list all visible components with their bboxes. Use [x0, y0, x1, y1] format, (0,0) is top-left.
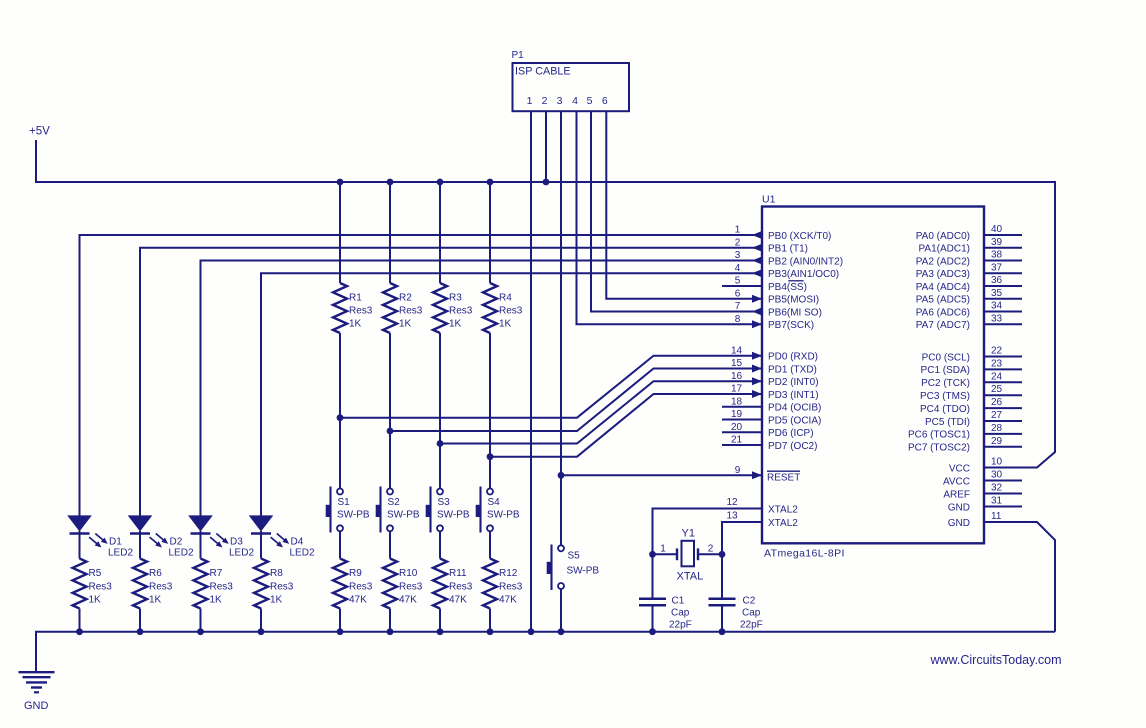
svg-text:22pF: 22pF — [669, 619, 692, 630]
svg-text:VCC: VCC — [949, 463, 970, 474]
svg-text:2: 2 — [735, 237, 741, 248]
svg-text:32: 32 — [991, 483, 1003, 494]
wire LED D3 to R7 — [200, 534, 202, 559]
IC U1 body — [762, 207, 984, 544]
svg-text:19: 19 — [731, 409, 743, 420]
switch S3 SW-PB — [426, 487, 470, 533]
svg-text:PC6 (TOSC1): PC6 (TOSC1) — [908, 430, 970, 441]
svg-text:1: 1 — [735, 225, 741, 236]
svg-text:R10: R10 — [399, 568, 418, 579]
svg-text:22pF: 22pF — [740, 619, 763, 630]
svg-text:S4: S4 — [488, 497, 501, 508]
wire GND rail — [36, 632, 1055, 672]
svg-text:22: 22 — [991, 346, 1003, 357]
U1 pin 11 GND label — [948, 511, 1002, 529]
svg-text:Res3: Res3 — [449, 306, 473, 317]
junction R11 / GND rail — [437, 628, 444, 635]
svg-text:C2: C2 — [743, 595, 756, 606]
U1 pin 10 VCC label — [949, 457, 1003, 475]
resistor R3 — [433, 283, 473, 333]
svg-text:5: 5 — [735, 276, 741, 287]
junction R9 / GND rail — [337, 628, 344, 635]
U1 pin 9 label — [735, 465, 801, 484]
U1 pin 7 label — [735, 301, 822, 318]
svg-text:2: 2 — [542, 95, 548, 107]
junction R8 / GND rail — [258, 628, 265, 635]
svg-text:Res3: Res3 — [499, 306, 523, 317]
LED D4 — [249, 515, 315, 558]
svg-text:24: 24 — [991, 371, 1003, 382]
ground symbol — [19, 672, 55, 712]
U1 pin 3 output arrow — [752, 257, 762, 265]
svg-text:R7: R7 — [210, 568, 223, 579]
U1 pin 17 input arrow — [752, 390, 762, 398]
svg-text:R12: R12 — [499, 568, 518, 579]
svg-text:XTAL2: XTAL2 — [768, 504, 798, 515]
svg-text:PC4 (TDO): PC4 (TDO) — [920, 404, 970, 415]
wire ISP pin 5 to U1 pin 7 MISO — [591, 111, 762, 312]
junction node PD1 / column — [387, 428, 394, 435]
svg-text:18: 18 — [731, 396, 743, 407]
wire S3 to R11 — [439, 531, 441, 558]
svg-text:30: 30 — [991, 470, 1003, 481]
svg-text:33: 33 — [991, 313, 1003, 324]
wire LED D2 to R6 — [139, 534, 141, 559]
svg-text:47K: 47K — [499, 595, 517, 606]
U1 pin 15 input arrow — [752, 365, 762, 373]
junction R12 / GND rail — [487, 628, 494, 635]
junction node PD2 / column — [437, 440, 444, 447]
U1 reference label — [762, 194, 776, 206]
svg-text:PB5(MOSI): PB5(MOSI) — [768, 295, 819, 306]
wire ISP pin 1 to GND rail — [530, 111, 532, 632]
svg-text:PB2 (AIN0/INT2): PB2 (AIN0/INT2) — [768, 256, 843, 267]
U1 pin 9 input arrow — [752, 471, 762, 479]
svg-text:28: 28 — [991, 423, 1003, 434]
U1 pin 21 label — [731, 435, 818, 452]
svg-text:XTAL: XTAL — [677, 571, 704, 583]
junction +5V rail / R4 — [487, 179, 494, 186]
svg-text:R9: R9 — [349, 568, 362, 579]
wire RESET net to U1 pin 9 — [561, 474, 762, 476]
svg-text:3: 3 — [557, 95, 563, 107]
svg-text:25: 25 — [991, 384, 1003, 395]
svg-text:1K: 1K — [270, 595, 283, 606]
svg-text:39: 39 — [991, 237, 1003, 248]
U1 pin 14 input arrow — [752, 352, 762, 360]
junction S5 / GND rail — [558, 628, 565, 635]
LED D1 — [67, 515, 133, 558]
svg-text:Res3: Res3 — [349, 582, 373, 593]
resistor R12 — [483, 559, 523, 609]
switch S1 SW-PB — [326, 487, 370, 533]
wire LED D1 to R5 — [79, 534, 81, 559]
svg-text:Res3: Res3 — [270, 582, 294, 593]
svg-text:Res3: Res3 — [210, 582, 234, 593]
svg-text:PD4 (OCIB): PD4 (OCIB) — [768, 403, 821, 414]
U1 pin 4 output arrow — [752, 269, 762, 277]
svg-text:15: 15 — [731, 358, 743, 369]
svg-text:Res3: Res3 — [449, 582, 473, 593]
switch S5 SW-PB — [547, 545, 600, 591]
power label +5V — [29, 126, 50, 138]
U1 pin 20 stub (NC) — [722, 431, 762, 433]
wire S1 to R9 — [339, 531, 341, 558]
svg-text:PD2 (INT0): PD2 (INT0) — [768, 377, 819, 388]
U1 pin 29 PC7 stub — [908, 436, 1022, 454]
svg-text:47K: 47K — [449, 595, 467, 606]
wire R8 to GND rail — [260, 609, 262, 632]
wire node PD2 to U1 pin 16 — [440, 381, 762, 443]
svg-text:PC7 (TOSC2): PC7 (TOSC2) — [908, 443, 970, 454]
svg-text:16: 16 — [731, 371, 743, 382]
junction R6 / GND rail — [137, 628, 144, 635]
svg-text:D4: D4 — [291, 537, 304, 548]
svg-text:S3: S3 — [438, 497, 451, 508]
U1 pin 20 label — [731, 422, 814, 439]
wire R1 to switch S1 — [339, 333, 341, 489]
junction crystal left node — [649, 551, 656, 558]
svg-text:SW-PB: SW-PB — [437, 509, 470, 520]
svg-text:LED2: LED2 — [108, 548, 133, 559]
junction +5V rail / R3 — [437, 179, 444, 186]
U1 pin 27 PC5 stub — [925, 410, 1022, 428]
svg-text:PB0 (XCK/T0): PB0 (XCK/T0) — [768, 231, 831, 242]
U1 pin 14 label — [731, 345, 818, 362]
U1 pin 24 PC2 stub — [921, 371, 1022, 389]
svg-text:PC2 (TCK): PC2 (TCK) — [921, 378, 970, 389]
svg-text:37: 37 — [991, 262, 1003, 273]
U1 pin 25 PC3 stub — [920, 384, 1022, 402]
wire R9 to GND rail — [339, 609, 341, 632]
svg-text:LED2: LED2 — [290, 548, 315, 559]
svg-text:Res3: Res3 — [499, 582, 523, 593]
U1 pin 22 PC0 stub — [922, 346, 1022, 364]
U1 pin 8 input arrow — [752, 320, 762, 328]
svg-text:1K: 1K — [499, 319, 512, 330]
website credit — [930, 653, 1062, 667]
U1 pin 7 output arrow — [752, 308, 762, 316]
connector P1 pin numbers — [527, 95, 608, 107]
U1 pin 18 stub (NC) — [722, 406, 762, 408]
wire ISP pin 6 to U1 pin 6 MOSI — [606, 111, 762, 299]
svg-text:Res3: Res3 — [349, 306, 373, 317]
wire U1 pin 2 to LED D2 — [140, 248, 762, 516]
svg-text:6: 6 — [735, 288, 741, 299]
capacitor C2 — [709, 554, 763, 631]
U1 pin 6 input arrow — [752, 295, 762, 303]
U1 pin 13 label — [726, 511, 798, 529]
svg-text:31: 31 — [991, 496, 1003, 507]
svg-text:LED2: LED2 — [169, 548, 194, 559]
wire +5V rail to R1 — [339, 182, 341, 283]
wire U1 pin 13 to crystal node — [722, 522, 762, 554]
U1 pin 30 AVCC stub — [943, 470, 1022, 488]
U1 pin 16 label — [731, 371, 819, 388]
U1 pin 19 stub (NC) — [722, 419, 762, 421]
svg-text:3: 3 — [735, 250, 741, 261]
resistor R4 — [483, 283, 523, 333]
svg-text:PA5 (ADC5): PA5 (ADC5) — [916, 295, 970, 306]
svg-text:10: 10 — [991, 457, 1003, 468]
svg-text:PC0 (SCL): PC0 (SCL) — [922, 352, 970, 363]
connector P1 ISP CABLE box — [512, 50, 630, 111]
svg-text:PC5 (TDI): PC5 (TDI) — [925, 417, 970, 428]
svg-text:R4: R4 — [499, 293, 512, 304]
wire R10 to GND rail — [389, 609, 391, 632]
svg-text:AREF: AREF — [943, 489, 970, 500]
wire node PD3 to U1 pin 17 — [490, 394, 762, 457]
U1 pin 1 label — [735, 225, 832, 242]
svg-text:PD6 (ICP): PD6 (ICP) — [768, 428, 814, 439]
U1 pin 3 label — [735, 250, 843, 267]
svg-text:PA2 (ADC2): PA2 (ADC2) — [916, 256, 970, 267]
svg-text:Y1: Y1 — [682, 528, 695, 540]
wire U1 pin 12 to crystal node — [653, 509, 763, 555]
junction R10 / GND rail — [387, 628, 394, 635]
svg-text:38: 38 — [991, 250, 1003, 261]
svg-text:LED2: LED2 — [229, 548, 254, 559]
wire S4 to R12 — [489, 531, 491, 558]
U1 pin 8 label — [735, 314, 814, 331]
wire +5V rail from +5V symbol to VCC pin 10 — [36, 140, 1055, 468]
svg-text:GND: GND — [24, 700, 49, 712]
svg-text:Cap: Cap — [742, 608, 761, 619]
svg-text:9: 9 — [735, 465, 741, 476]
svg-text:R8: R8 — [270, 568, 283, 579]
junction R7 / GND rail — [197, 628, 204, 635]
svg-text:14: 14 — [731, 345, 743, 356]
U1 pin 6 label — [735, 288, 819, 305]
U1 pin 19 label — [731, 409, 821, 426]
junction R5 / GND rail — [76, 628, 83, 635]
svg-text:1: 1 — [660, 544, 666, 555]
svg-text:8: 8 — [735, 314, 741, 325]
U1 pin 32 AREF stub — [943, 483, 1022, 501]
svg-text:PB4(SS): PB4(SS) — [768, 282, 807, 293]
svg-text:+5V: +5V — [29, 126, 50, 138]
wire U1 pin 3 to LED D3 — [201, 261, 763, 516]
wire ISP pin 4 to U1 pin 8 SCK — [577, 111, 763, 324]
svg-text:20: 20 — [731, 422, 743, 433]
svg-text:PD5 (OCIA): PD5 (OCIA) — [768, 415, 821, 426]
svg-text:PC3 (TMS): PC3 (TMS) — [920, 391, 970, 402]
wire ISP pin 2 to +5V rail — [545, 111, 547, 182]
svg-text:PA1(ADC1): PA1(ADC1) — [919, 244, 971, 255]
resistor R11 — [433, 559, 473, 609]
wire R2 to switch S2 — [389, 333, 391, 489]
svg-text:SW-PB: SW-PB — [567, 566, 600, 577]
U1 pin 35 PA5 stub — [916, 288, 1022, 306]
svg-text:PD3 (INT1): PD3 (INT1) — [768, 390, 819, 401]
wire node PD0 to U1 pin 14 — [340, 356, 762, 418]
svg-text:SW-PB: SW-PB — [487, 509, 520, 520]
svg-text:PA4 (ADC4): PA4 (ADC4) — [916, 282, 970, 293]
svg-text:PA7 (ADC7): PA7 (ADC7) — [916, 320, 970, 331]
wire R4 to switch S4 — [489, 333, 491, 489]
wire +5V rail to R3 — [439, 182, 441, 283]
wire R6 to GND rail — [139, 609, 141, 632]
svg-text:PB7(SCK): PB7(SCK) — [768, 320, 814, 331]
wire U1 pin 1 to LED D1 — [80, 235, 763, 516]
U1 pin 12 label — [726, 497, 798, 515]
svg-text:40: 40 — [991, 224, 1003, 235]
U1 pin 5 label — [735, 276, 807, 293]
svg-text:S5: S5 — [568, 551, 581, 562]
svg-text:6: 6 — [602, 95, 608, 107]
switch S4 SW-PB — [476, 487, 520, 533]
junction RESET net — [558, 472, 565, 479]
LED D2 — [128, 515, 194, 558]
svg-text:C1: C1 — [672, 595, 685, 606]
svg-text:1K: 1K — [210, 595, 223, 606]
svg-text:47K: 47K — [349, 595, 367, 606]
svg-text:1K: 1K — [399, 319, 412, 330]
wire S5 to GND rail — [560, 589, 562, 632]
svg-text:Res3: Res3 — [89, 582, 113, 593]
U1 pin 1 output arrow — [752, 231, 762, 239]
svg-text:PA6 (ADC6): PA6 (ADC6) — [916, 307, 970, 318]
junction C1 / GND rail — [649, 628, 656, 635]
U1 pin 18 label — [731, 396, 821, 413]
svg-text:D3: D3 — [230, 537, 243, 548]
svg-text:ATmega16L-8PI: ATmega16L-8PI — [764, 548, 845, 560]
svg-text:R6: R6 — [149, 568, 162, 579]
junction node PD3 / column — [487, 453, 494, 460]
svg-text:RESET: RESET — [767, 472, 800, 483]
svg-text:PD7 (OC2): PD7 (OC2) — [768, 441, 817, 452]
svg-text:4: 4 — [572, 95, 578, 107]
svg-text:PD1 (TXD): PD1 (TXD) — [768, 364, 817, 375]
resistor R5 — [73, 559, 113, 609]
switch S2 SW-PB — [376, 487, 420, 533]
svg-text:PB6(MI SO): PB6(MI SO) — [768, 307, 822, 318]
junction +5V rail / R1 — [337, 179, 344, 186]
svg-text:27: 27 — [991, 410, 1003, 421]
capacitor C1 — [639, 554, 692, 631]
svg-text:SW-PB: SW-PB — [387, 509, 420, 520]
svg-text:1: 1 — [527, 95, 533, 107]
svg-text:PA0 (ADC0): PA0 (ADC0) — [916, 231, 970, 242]
svg-text:23: 23 — [991, 358, 1003, 369]
wire LED D4 to R8 — [260, 534, 262, 559]
svg-text:AVCC: AVCC — [943, 476, 970, 487]
LED D3 — [188, 515, 254, 558]
U1 pin 38 PA2 stub — [916, 250, 1022, 268]
U1 pin 28 PC6 stub — [908, 423, 1022, 441]
svg-text:11: 11 — [991, 511, 1002, 522]
U1 pin 21 stub (NC) — [722, 444, 762, 446]
junction +5V rail / R2 — [387, 179, 394, 186]
svg-text:26: 26 — [991, 397, 1003, 408]
svg-text:R3: R3 — [449, 293, 462, 304]
U1 pin 17 label — [731, 384, 819, 401]
U1 pin 16 input arrow — [752, 377, 762, 385]
U1 pin 34 PA6 stub — [916, 301, 1022, 319]
svg-text:36: 36 — [991, 275, 1003, 286]
svg-text:47K: 47K — [399, 595, 417, 606]
svg-text:5: 5 — [587, 95, 593, 107]
svg-text:1K: 1K — [89, 595, 102, 606]
U1 pin 36 PA4 stub — [916, 275, 1022, 293]
U1 pin 37 PA3 stub — [916, 262, 1022, 280]
svg-text:7: 7 — [735, 301, 741, 312]
svg-text:21: 21 — [731, 435, 743, 446]
svg-text:PC1 (SDA): PC1 (SDA) — [921, 365, 970, 376]
U1 pin 26 PC4 stub — [920, 397, 1022, 415]
wire node PD1 to U1 pin 15 — [390, 369, 762, 432]
wire R11 to GND rail — [439, 609, 441, 632]
U1 pin 40 PA0 stub — [916, 224, 1022, 242]
resistor R7 — [194, 559, 234, 609]
svg-text:17: 17 — [731, 384, 743, 395]
svg-text:SW-PB: SW-PB — [337, 509, 370, 520]
svg-text:R1: R1 — [349, 293, 362, 304]
svg-text:1K: 1K — [449, 319, 462, 330]
U1 pin 31 GND stub — [948, 496, 1022, 514]
wire ISP pin 3 RESET net vertical — [560, 111, 562, 545]
svg-text:1K: 1K — [149, 595, 162, 606]
junction ISP pin1 / GND rail — [528, 628, 535, 635]
svg-text:D1: D1 — [109, 537, 122, 548]
wire U1 pin 4 to LED D4 — [261, 273, 762, 515]
junction node PD0 / column — [337, 414, 344, 421]
junction crystal right node — [719, 551, 726, 558]
wire +5V rail to R4 — [489, 182, 491, 283]
svg-text:S1: S1 — [338, 497, 351, 508]
svg-text:XTAL2: XTAL2 — [768, 518, 798, 529]
U1 pin 15 label — [731, 358, 817, 375]
svg-text:13: 13 — [726, 511, 738, 522]
U1 pin 39 PA1 stub — [919, 237, 1023, 255]
svg-text:1K: 1K — [349, 319, 362, 330]
svg-text:Res3: Res3 — [149, 582, 173, 593]
wire R3 to switch S3 — [439, 333, 441, 489]
wire S2 to R10 — [389, 531, 391, 558]
resistor R10 — [383, 559, 423, 609]
svg-text:R2: R2 — [399, 293, 412, 304]
svg-text:29: 29 — [991, 436, 1003, 447]
svg-text:Cap: Cap — [671, 608, 690, 619]
svg-text:R11: R11 — [449, 568, 467, 579]
resistor R6 — [133, 559, 173, 609]
U1 pin 23 PC1 stub — [921, 358, 1022, 376]
wire +5V rail to R2 — [389, 182, 391, 283]
resistor R9 — [333, 559, 373, 609]
svg-text:PA3 (ADC3): PA3 (ADC3) — [916, 269, 970, 280]
svg-text:S2: S2 — [388, 497, 401, 508]
U1 pin 2 label — [735, 237, 808, 254]
svg-text:Res3: Res3 — [399, 306, 423, 317]
svg-text:ISP CABLE: ISP CABLE — [515, 65, 571, 77]
svg-text:GND: GND — [948, 502, 970, 513]
svg-text:Res3: Res3 — [399, 582, 423, 593]
svg-text:35: 35 — [991, 288, 1003, 299]
svg-text:D2: D2 — [170, 537, 183, 548]
junction +5V rail / ISP pin 2 — [543, 179, 550, 186]
resistor R8 — [254, 559, 294, 609]
svg-text:PD0 (RXD): PD0 (RXD) — [768, 352, 818, 363]
U1 part label ATmega16L-8PI — [764, 548, 845, 560]
svg-text:www.CircuitsToday.com: www.CircuitsToday.com — [930, 653, 1062, 667]
svg-text:GND: GND — [948, 518, 970, 529]
U1 pin 2 output arrow — [752, 244, 762, 252]
svg-text:4: 4 — [735, 263, 741, 274]
svg-text:U1: U1 — [762, 194, 776, 206]
wire U1 pin 11 to GND rail — [984, 522, 1055, 632]
crystal Y1 — [653, 528, 723, 583]
resistor R2 — [383, 283, 423, 333]
